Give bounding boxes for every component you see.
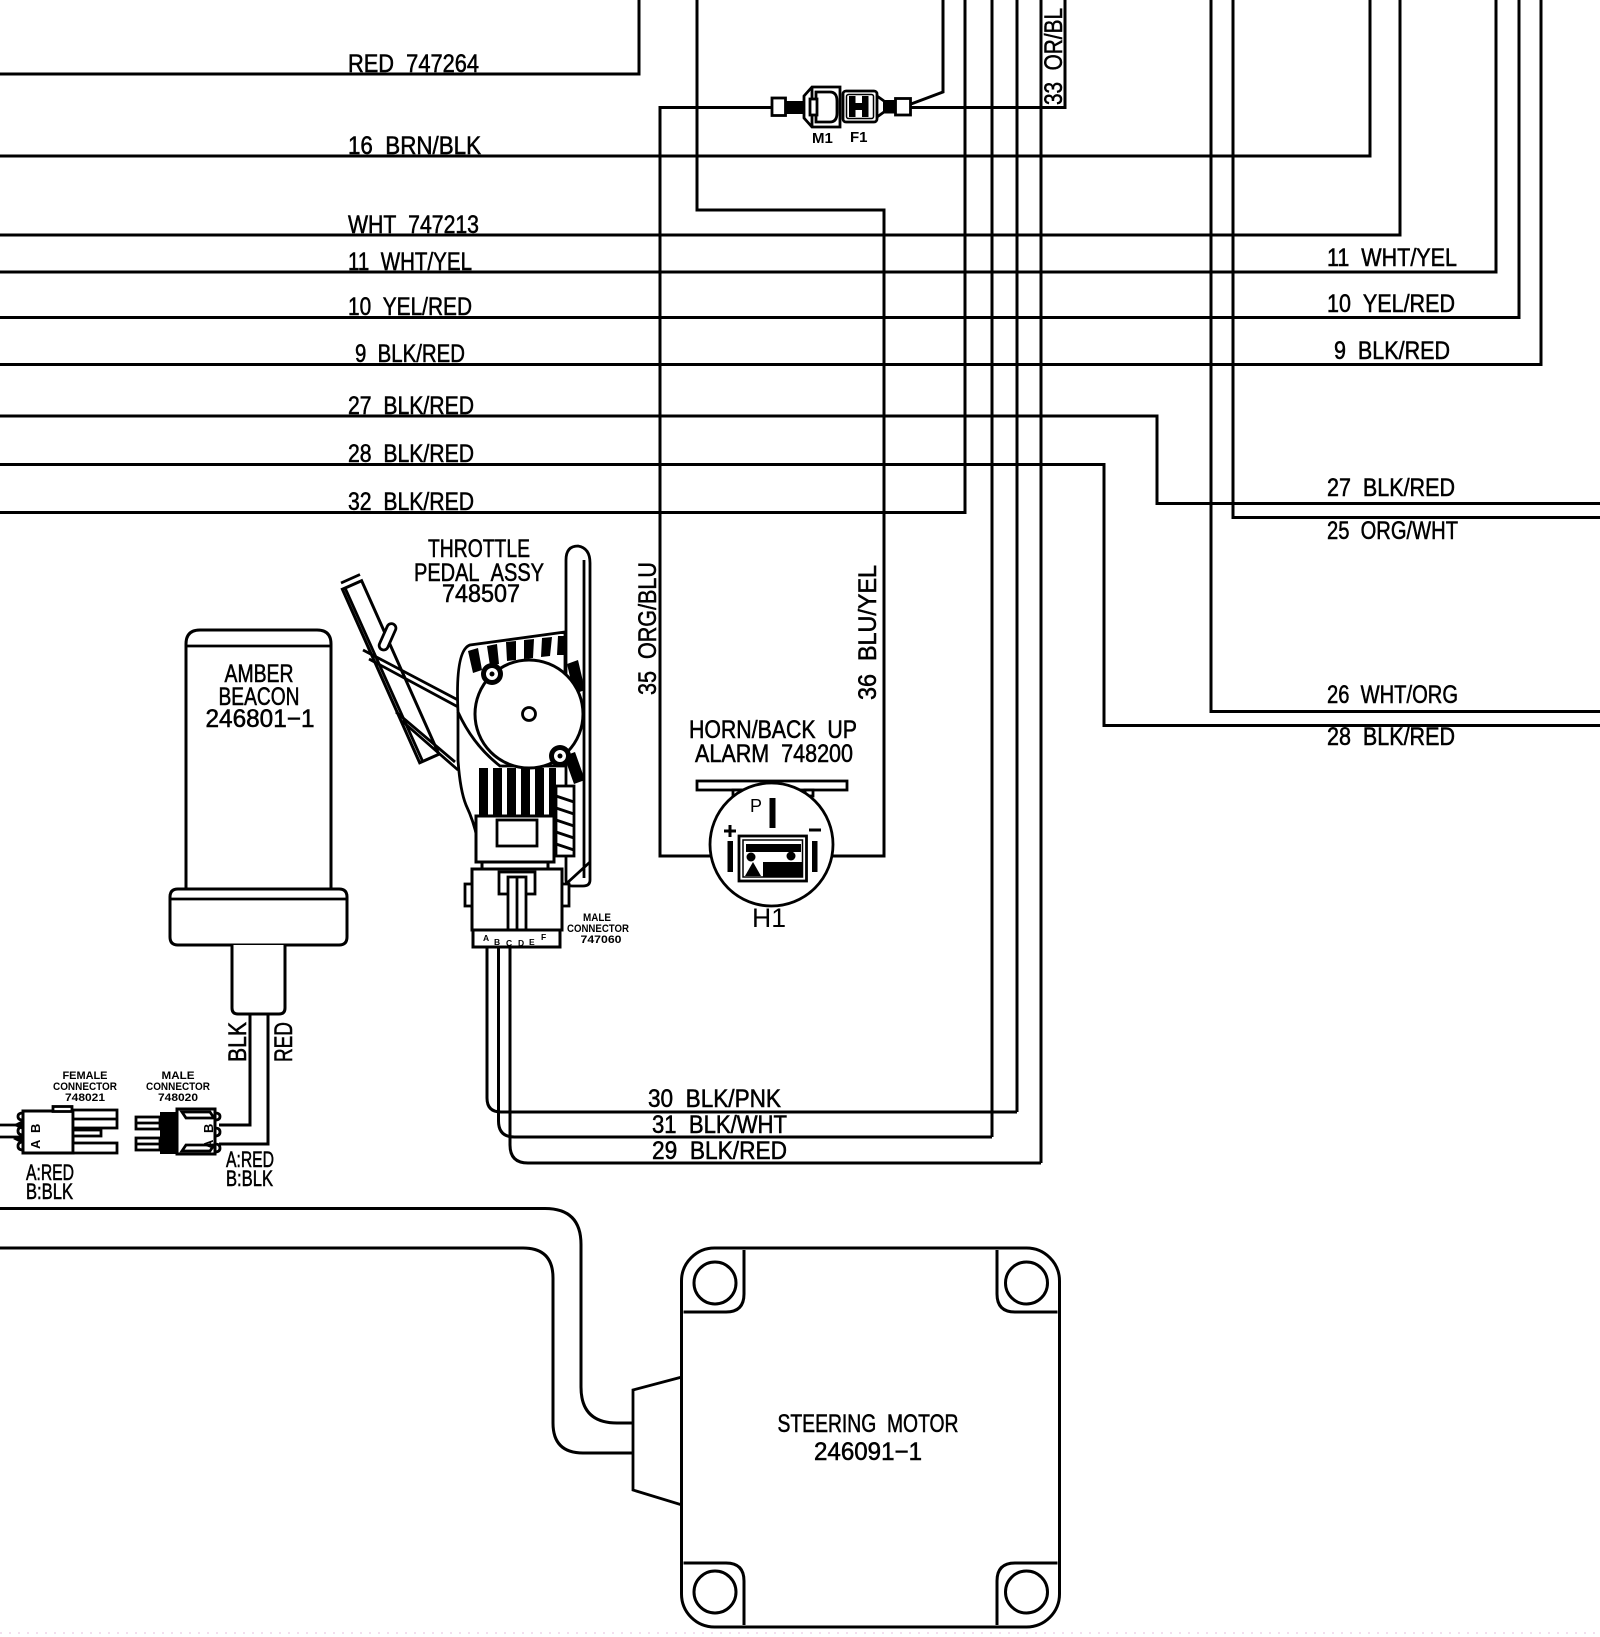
throttle pedal center hole <box>523 708 536 721</box>
svg-text:747060: 747060 <box>581 934 622 946</box>
svg-text:B:BLK: B:BLK <box>26 1179 73 1204</box>
throttle pedal bolt 2 <box>549 745 571 767</box>
female connector 748021 body <box>23 1111 73 1153</box>
wire 25 ORG/WHT <box>1233 0 1600 518</box>
fuse F1 element <box>849 96 856 117</box>
wire fuse to battery <box>911 0 943 104</box>
wire 28 BLK/RED <box>0 465 1600 726</box>
wire RED 747264 <box>0 0 639 74</box>
svg-text:16 BRN/BLK: 16 BRN/BLK <box>348 132 481 160</box>
svg-text:748020: 748020 <box>158 1092 198 1104</box>
male connector 747060 body <box>472 869 562 930</box>
amber beacon dome <box>186 630 331 889</box>
wire 10 YEL/RED <box>0 0 1519 318</box>
wire 27 BLK/RED <box>0 416 1600 504</box>
throttle pedal bracket <box>566 546 590 886</box>
svg-text:B: B <box>28 1124 43 1133</box>
horn label plate <box>739 836 807 881</box>
horn plus terminal <box>724 825 736 837</box>
fuse F1 crimp <box>883 100 896 114</box>
svg-text:10 YEL/RED: 10 YEL/RED <box>348 293 472 321</box>
svg-text:36 BLU/YEL: 36 BLU/YEL <box>854 565 882 700</box>
male connector 747060 plate <box>473 930 560 947</box>
wire 31 BLK/WHT vertical <box>991 0 994 1137</box>
svg-text:9 BLK/RED: 9 BLK/RED <box>1334 337 1450 365</box>
svg-text:B:BLK: B:BLK <box>226 1166 273 1191</box>
svg-text:246801−1: 246801−1 <box>206 705 315 733</box>
svg-text:26 WHT/ORG: 26 WHT/ORG <box>1327 681 1458 709</box>
svg-text:F: F <box>541 932 546 942</box>
throttle pedal side ribs <box>564 660 585 784</box>
svg-text:P: P <box>750 796 762 816</box>
svg-text:E: E <box>529 937 535 947</box>
svg-text:31 BLK/WHT: 31 BLK/WHT <box>652 1111 787 1139</box>
throttle pedal spring <box>556 786 574 856</box>
male connector 748020 body <box>177 1109 215 1154</box>
svg-text:28 BLK/RED: 28 BLK/RED <box>1327 723 1455 751</box>
horn P terminal <box>770 798 776 828</box>
svg-text:B: B <box>494 937 500 947</box>
wire 32 BLK/RED <box>0 0 965 513</box>
wire into female connector A <box>0 1124 20 1127</box>
connector M1 crimp <box>785 101 805 114</box>
steering motor connector <box>633 1377 682 1505</box>
svg-text:35 ORG/BLU: 35 ORG/BLU <box>634 562 662 695</box>
wire 36 BLU/YEL <box>697 0 884 856</box>
svg-text:32 BLK/RED: 32 BLK/RED <box>348 488 474 516</box>
connector M1 terminal <box>772 98 786 116</box>
svg-text:11 WHT/YEL: 11 WHT/YEL <box>1327 244 1457 272</box>
svg-text:RED: RED <box>270 1022 298 1062</box>
svg-text:9 BLK/RED: 9 BLK/RED <box>355 340 465 368</box>
male connector 748020 prongs <box>136 1117 160 1129</box>
male connector 748020 seal <box>160 1112 177 1154</box>
svg-text:10 YEL/RED: 10 YEL/RED <box>1327 290 1455 318</box>
svg-text:30 BLK/PNK: 30 BLK/PNK <box>648 1085 781 1113</box>
female connector prongs <box>73 1110 117 1128</box>
throttle pedal plate <box>342 581 439 763</box>
svg-text:C: C <box>506 938 512 948</box>
wire 30 BLK/PNK <box>487 947 1017 1112</box>
steering motor cable <box>0 1209 633 1424</box>
wire RED beacon <box>219 1014 268 1144</box>
wire 11 WHT/YEL <box>0 0 1496 272</box>
wire 29 BLK/RED vertical <box>1040 0 1043 1163</box>
fuse F1 terminal <box>896 99 911 116</box>
svg-text:STEERING MOTOR: STEERING MOTOR <box>778 1410 959 1438</box>
svg-text:D: D <box>518 938 524 948</box>
wire BLK beacon <box>219 1014 250 1125</box>
throttle pedal plate tab <box>378 622 398 651</box>
steering motor body <box>682 1248 1060 1627</box>
svg-text:RED 747264: RED 747264 <box>348 50 479 78</box>
svg-text:F1: F1 <box>850 129 868 146</box>
amber beacon base <box>170 889 347 945</box>
svg-text:BLK: BLK <box>224 1022 252 1062</box>
svg-text:A: A <box>201 1139 216 1149</box>
svg-text:28 BLK/RED: 28 BLK/RED <box>348 440 474 468</box>
svg-text:B: B <box>201 1124 216 1133</box>
fuse F1 taper <box>877 96 884 117</box>
svg-text:27 BLK/RED: 27 BLK/RED <box>1327 474 1455 502</box>
svg-text:27 BLK/RED: 27 BLK/RED <box>348 392 474 420</box>
wire 26 WHT/ORG <box>1211 0 1600 712</box>
svg-text:ALARM 748200: ALARM 748200 <box>695 740 853 768</box>
svg-text:29 BLK/RED: 29 BLK/RED <box>652 1137 787 1165</box>
throttle pedal grille <box>479 768 556 816</box>
throttle pedal connector block <box>476 816 554 862</box>
svg-text:246091−1: 246091−1 <box>814 1438 922 1466</box>
svg-text:748021: 748021 <box>65 1092 105 1104</box>
wire into female connector B <box>0 1136 20 1139</box>
steering motor corner pads <box>684 1250 745 1312</box>
throttle pedal housing <box>458 632 566 766</box>
throttle pedal bolt 1 <box>481 663 503 685</box>
connector M1 housing <box>804 87 840 127</box>
svg-text:A: A <box>483 933 489 943</box>
horn H1 body <box>710 783 833 906</box>
fuse F1 body <box>843 91 877 122</box>
female connector top tab <box>53 1107 72 1112</box>
wire 16 BRN/BLK <box>0 0 1370 156</box>
wire 31 BLK/WHT <box>499 947 993 1137</box>
throttle pedal sector <box>475 660 583 768</box>
amber beacon dome line <box>186 645 331 648</box>
amber beacon stem <box>232 945 285 1014</box>
throttle pedal fan ribs <box>468 636 565 673</box>
horn minus terminal <box>809 829 821 832</box>
wire 29 BLK/RED <box>510 947 1041 1163</box>
throttle pedal connector step <box>482 862 548 869</box>
horn mounting bar <box>697 781 847 790</box>
throttle pedal arms <box>363 650 460 770</box>
svg-text:A: A <box>28 1139 43 1149</box>
svg-text:WHT 747213: WHT 747213 <box>348 211 479 239</box>
wire WHT 747213 <box>0 0 1400 235</box>
wire 35 ORG/BLU <box>660 108 772 857</box>
wire 9 BLK/RED <box>0 0 1541 365</box>
svg-text:11 WHT/YEL: 11 WHT/YEL <box>348 248 472 276</box>
svg-text:748507: 748507 <box>442 580 520 608</box>
svg-text:H1: H1 <box>752 903 786 933</box>
wire 30 BLK/PNK vertical <box>1016 0 1019 1112</box>
page edge dots <box>0 1632 1600 1634</box>
svg-text:25 ORG/WHT: 25 ORG/WHT <box>1327 517 1458 545</box>
wire 33 OR/BL <box>911 0 1065 108</box>
svg-text:33 OR/BL: 33 OR/BL <box>1040 8 1068 105</box>
svg-text:M1: M1 <box>812 130 833 147</box>
steering motor bolt holes <box>694 1262 736 1304</box>
